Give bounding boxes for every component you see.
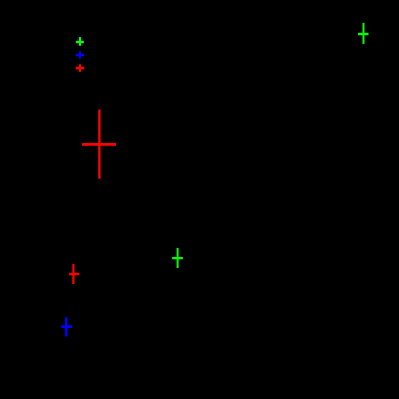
errorbar point P1 (green, top-left group) xyxy=(76,37,84,46)
errorbar point P7 (red, lower-left) xyxy=(69,264,79,284)
errorbar point P2 (blue, top-left group) xyxy=(76,51,84,59)
errorbar point P8 (blue, lower-left) xyxy=(61,317,72,336)
errorbar point P3 (red, top-left group) xyxy=(76,64,84,72)
errorbar point P5 (green, top-right) xyxy=(358,23,369,44)
errorbar point P6 (green, centre) xyxy=(172,248,183,268)
errorbar point P4 (large red cross) xyxy=(82,110,116,179)
